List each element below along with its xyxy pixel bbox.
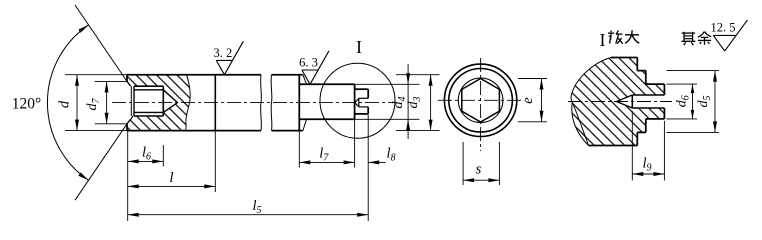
svg-text:e: e (520, 97, 536, 104)
svg-text:l: l (169, 170, 173, 186)
svg-text:3. 2: 3. 2 (214, 46, 233, 60)
svg-text:12. 5: 12. 5 (711, 21, 736, 35)
svg-text:I: I (600, 30, 606, 50)
svg-text:s: s (476, 162, 482, 178)
svg-text:6. 3: 6. 3 (299, 56, 318, 70)
svg-text:d: d (57, 100, 73, 108)
svg-text:I: I (356, 37, 362, 57)
svg-text:120°: 120° (12, 96, 41, 113)
